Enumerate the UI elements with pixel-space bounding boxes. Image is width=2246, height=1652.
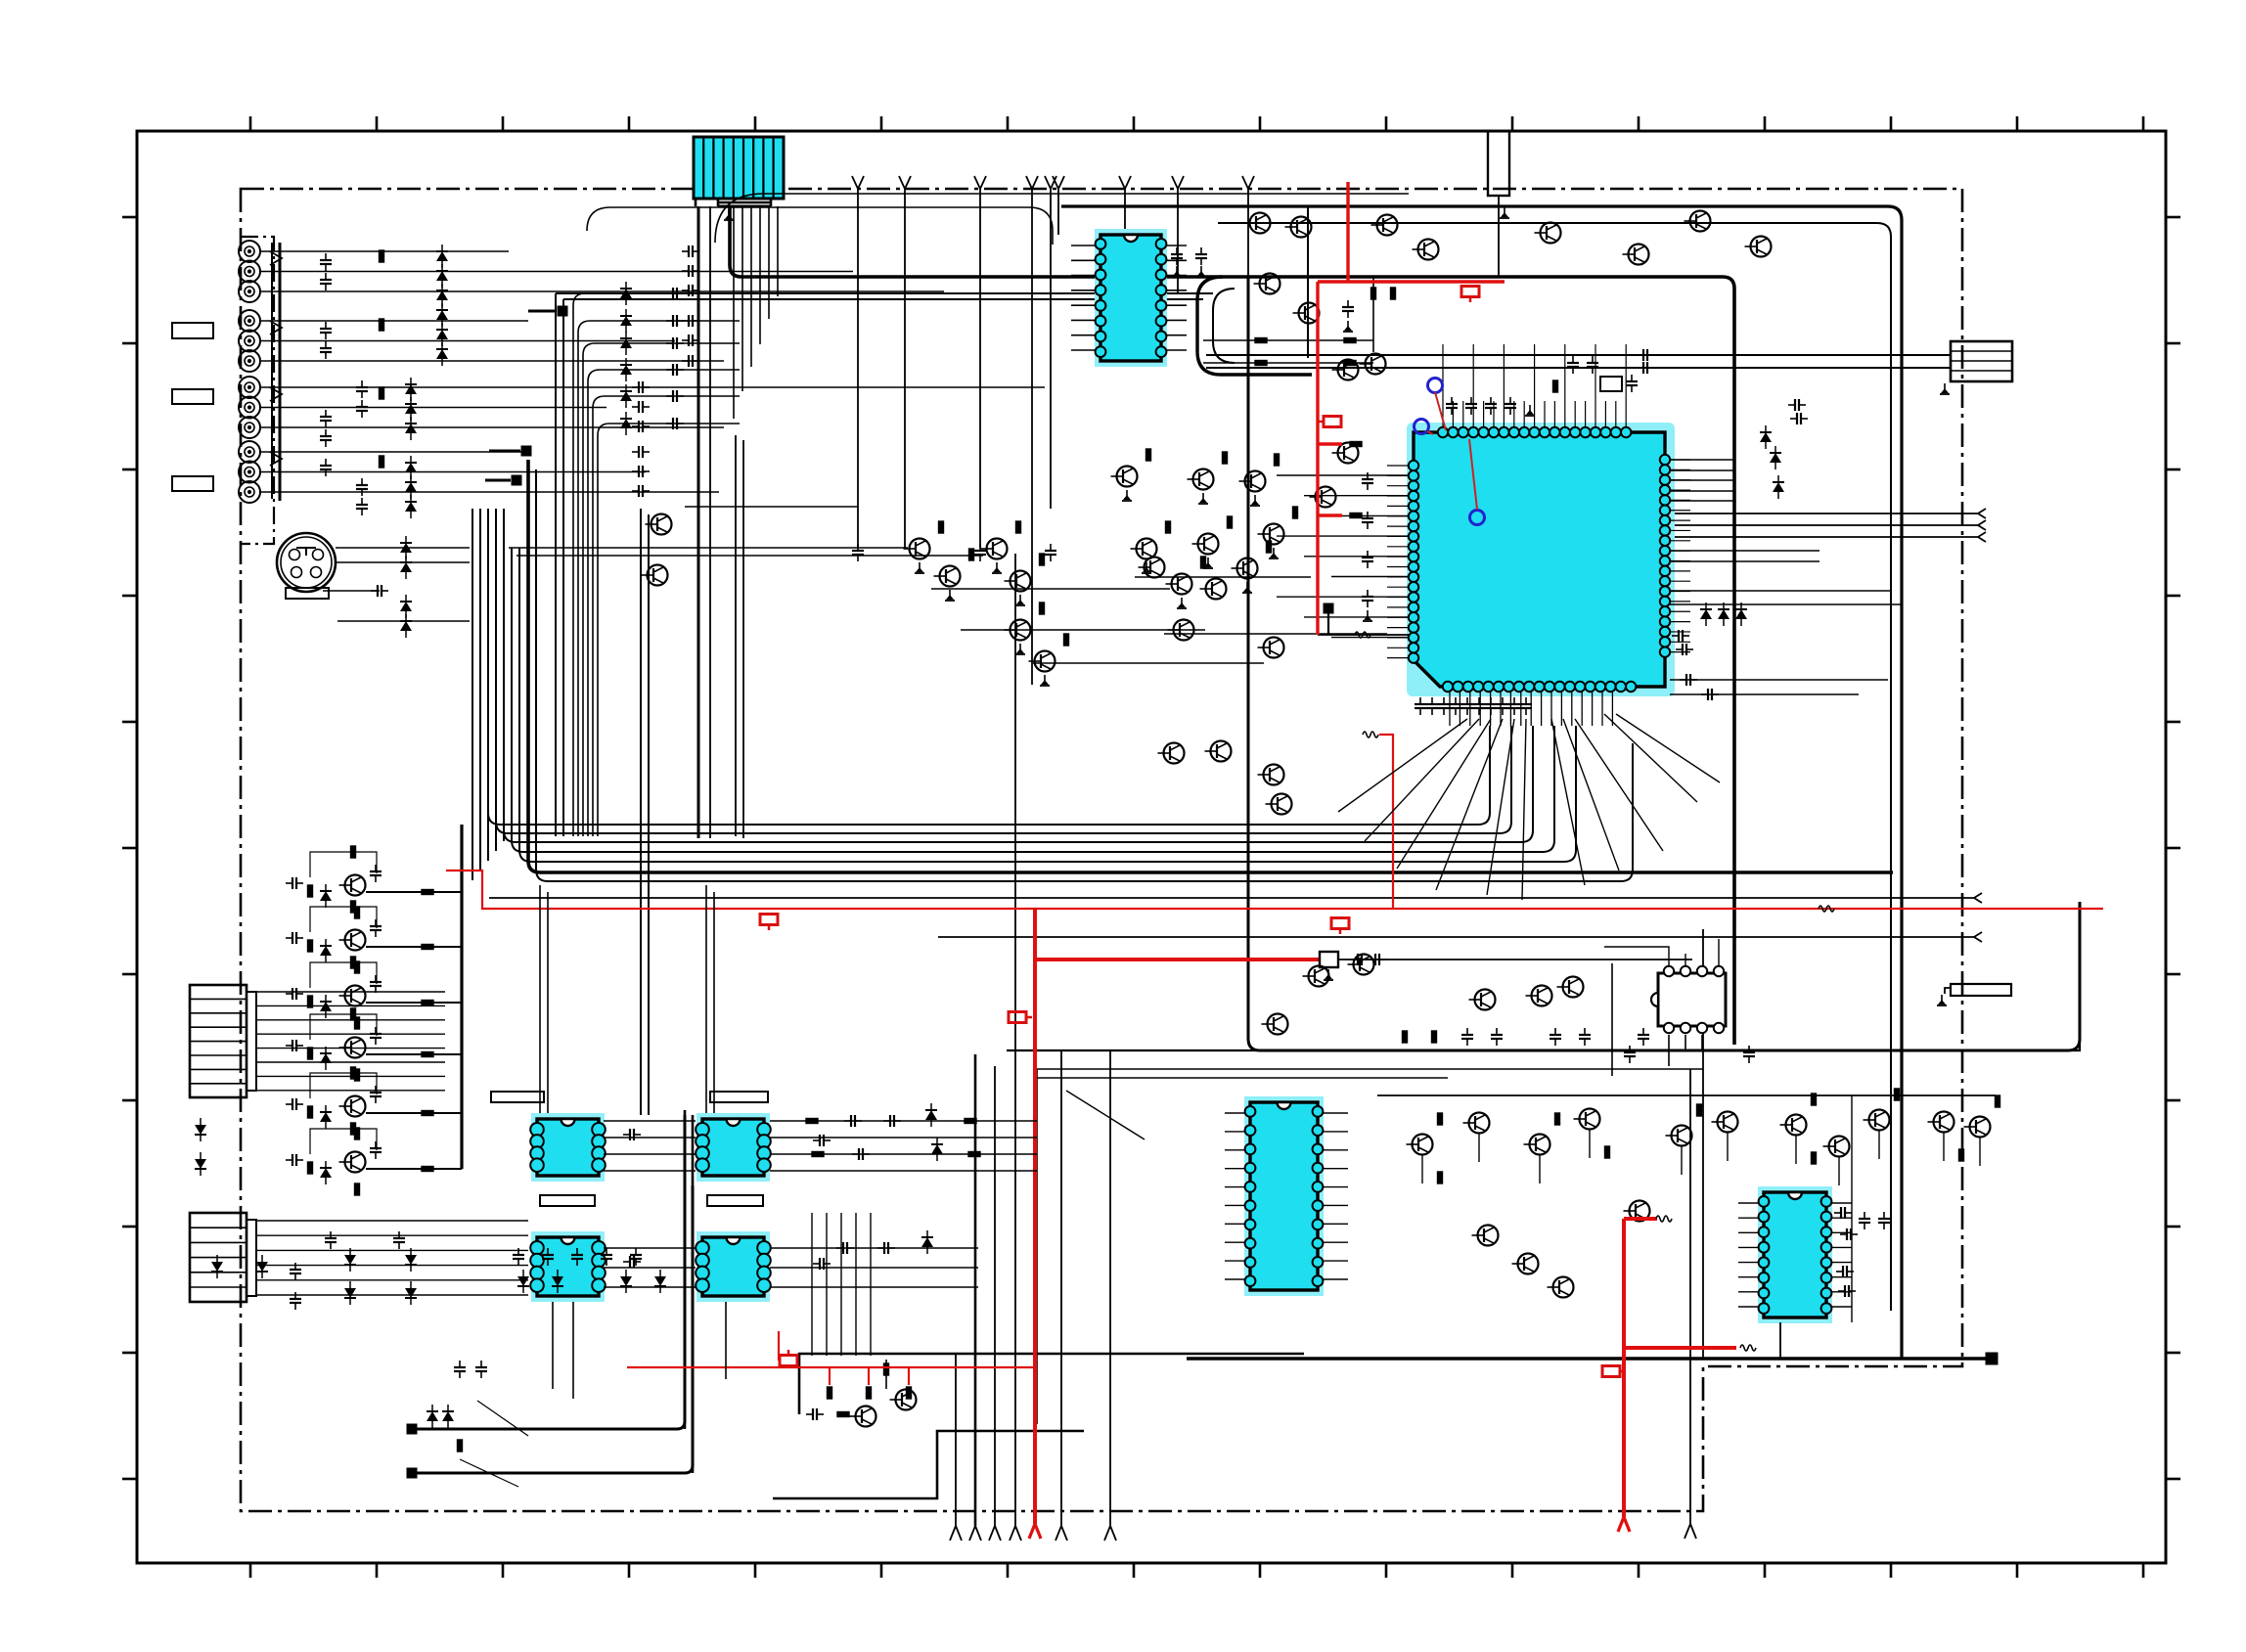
label above A	[491, 1092, 544, 1102]
component column x330	[320, 253, 332, 271]
wire: middle horizontal bundle	[488, 548, 1490, 825]
bottom-left diode/cap rows	[513, 1248, 524, 1266]
bottom-left cluster	[454, 1361, 466, 1378]
vertical pair below first rows	[735, 435, 737, 836]
red wire: horizontal y288	[1318, 280, 1505, 283]
component column x390	[380, 250, 384, 262]
terminal square	[1986, 1353, 1998, 1364]
transistors above QFP	[1285, 217, 1312, 238]
black line from red end to QFP	[1318, 634, 1409, 636]
single transistors left-mid	[646, 514, 672, 535]
label box 2	[172, 389, 213, 404]
mid horizontal link lines	[509, 547, 908, 549]
white DIP8 wiring	[1612, 963, 1702, 1076]
group arrows	[270, 251, 282, 265]
wire: vertical x1741	[1702, 929, 1704, 1359]
QFP pin stub wires	[1442, 344, 1444, 427]
diode column x420	[405, 378, 417, 401]
red wire: thick vertical x1058	[1033, 909, 1037, 1524]
FET pair below	[1158, 743, 1185, 764]
wire: verticals from top connector	[697, 206, 700, 838]
red stub resistors	[1350, 442, 1362, 447]
wire: left double vertical pair	[555, 293, 557, 836]
wire: top bus over IC area	[730, 206, 1734, 1045]
label box 1	[172, 323, 213, 338]
transistors top right of DIP16	[1244, 213, 1271, 234]
bottom mid transistor box	[799, 1354, 1304, 1414]
QFP right extra lines	[1670, 590, 1891, 592]
ECO marker circles (blue)	[1428, 379, 1443, 393]
red wire: thin horizontal y1398	[627, 1366, 1035, 1368]
verticals below DIP8 B to box	[811, 1213, 813, 1356]
component row right of DIP8 B	[806, 1119, 818, 1124]
vertical right of loop	[1307, 206, 1309, 358]
diode column right of QFP	[1760, 425, 1772, 449]
IC DIP8 B	[696, 1113, 771, 1182]
QFP left pin net	[1277, 474, 1409, 476]
wire: bottom thick bus to square terminal	[1187, 1357, 1986, 1361]
zener pair left-mid	[195, 1118, 206, 1141]
transistors left of QFP	[1310, 487, 1336, 508]
top link line above DIP16	[587, 207, 1053, 245]
more transistors left of QFP	[1139, 558, 1165, 578]
red wire: thin jog near QFP	[1379, 735, 1393, 908]
DIP16 caps right	[1171, 247, 1183, 265]
red flag D	[1331, 918, 1349, 935]
diodes triple below	[1700, 603, 1712, 626]
right-bottom component rows	[1461, 1028, 1473, 1046]
caps at bottoms of top verticals	[852, 544, 864, 561]
QFP right-side triple lines	[1670, 513, 1978, 514]
RCA jacks	[239, 241, 260, 262]
red flag B	[1318, 417, 1341, 427]
wire: bottom-right box top	[1007, 902, 2080, 1050]
transistors pair mid (1350,1005)	[1303, 966, 1329, 987]
label box 3	[172, 476, 213, 491]
red flag A	[1461, 287, 1479, 303]
series caps on jack rows	[682, 246, 699, 257]
mid cluster transistors	[904, 539, 930, 559]
gnd below connector	[724, 209, 734, 220]
DIP right pin stubs	[1738, 1202, 1758, 1204]
sheet border frame	[137, 131, 2166, 1563]
wire: top area verticals from dash-dot	[857, 189, 859, 548]
left column output bus	[460, 825, 463, 1169]
red flag G	[1602, 1366, 1626, 1377]
wire: verticals mid-left	[640, 509, 642, 1115]
QFP bottom pin verticals	[1449, 692, 1451, 726]
diodes near DIN	[400, 536, 412, 559]
long thin horizontals mid page	[489, 897, 1974, 899]
connector2 extra symbols	[344, 1248, 356, 1272]
red wire: top vertical	[1346, 182, 1349, 282]
thick L-wires bottom-left	[407, 1424, 417, 1434]
transistors right of QFP top	[1684, 211, 1711, 232]
cluster above QFP	[1446, 397, 1458, 415]
caps column left of QFP	[1362, 472, 1373, 490]
left connector block 1	[190, 985, 256, 1097]
caps below QFP	[1415, 697, 1426, 715]
red wire: bottom right network	[1624, 1217, 1657, 1221]
left connector block 2	[190, 1213, 256, 1302]
wire: right outer vertical bus thin	[1218, 223, 1891, 1311]
box edge verticals bottom mid	[1036, 1069, 1038, 1424]
red stubs at transistor box	[829, 1367, 831, 1385]
red wire: vertical x1347	[1316, 282, 1319, 635]
label under A	[540, 1195, 595, 1206]
wire: right outer vertical bus thick	[1061, 206, 1902, 1359]
red flag E	[1009, 1012, 1032, 1023]
IC DIP20 bottom mid-right	[1244, 1096, 1324, 1296]
connector CN top (cyan)	[694, 137, 784, 199]
connector verticals down to rows	[777, 206, 779, 296]
cluster right of red vertical	[1342, 300, 1354, 318]
DIP16 stubs	[1071, 245, 1095, 246]
red flag C	[760, 915, 778, 931]
diode column x452	[436, 245, 448, 268]
IC DIP8 C	[530, 1231, 606, 1302]
red stubs	[1318, 442, 1342, 445]
beads on red lines	[1363, 732, 1378, 737]
left column transistor cells	[339, 875, 366, 896]
IC DIP8 A	[530, 1113, 606, 1182]
DIP20 pin stubs	[1225, 1112, 1244, 1114]
DIP8 interconnect lines	[604, 1120, 696, 1122]
bottom right transistor cluster	[1407, 1135, 1433, 1155]
wire: jack bundle going down	[472, 509, 473, 880]
bottom-right section top horizontals	[1037, 1068, 1703, 1070]
top-right small box component	[1488, 131, 1509, 196]
IC DIP8 white (top of bottom-right)	[1651, 966, 1726, 1033]
red wire: long thin horizontal	[446, 871, 2103, 909]
QFP right bottom lines	[1670, 679, 1888, 681]
label above B	[710, 1092, 768, 1102]
lines to right connector	[1206, 354, 1951, 356]
black box at end of red	[1320, 952, 1338, 967]
jack bundle terminals	[528, 310, 557, 313]
IC QFP main (cyan)	[1407, 423, 1675, 696]
right connector box 1	[1951, 341, 2012, 381]
caps column x370	[356, 380, 368, 398]
DIP8 riser wires	[539, 885, 541, 1113]
wire: thick mid bus	[528, 460, 1893, 872]
board outline dash-dot boundary	[241, 189, 1962, 1511]
IC DIP bottom right	[1758, 1186, 1832, 1323]
QFP right pin lines	[1670, 459, 1734, 461]
bottom right cluster top rail	[1377, 1094, 1996, 1096]
bottom verticals with arrows	[955, 1354, 957, 1526]
loop rows right of DIP16	[1203, 339, 1373, 341]
IC DIP8 D	[696, 1231, 771, 1302]
input jacks dash-dot sub-boundary	[241, 237, 274, 544]
jack vertical bus	[271, 243, 273, 499]
red flag F	[780, 1350, 797, 1366]
caps right of bottom DIP	[1834, 1207, 1852, 1219]
red wire: thick horizontal y981	[1035, 958, 1320, 961]
caps cluster near DIP8s	[623, 1129, 641, 1140]
label under B	[707, 1195, 763, 1206]
fan annotation lines below QFP	[1338, 719, 1467, 812]
thick loop left of cluster	[1197, 277, 1312, 375]
IC DIP16	[1095, 229, 1167, 367]
DIN connector circle	[277, 533, 336, 599]
left lower connector wires	[256, 991, 445, 993]
diode/cap rows mid top	[573, 293, 740, 836]
right connector small box 2	[1951, 984, 2011, 996]
connector bracket	[696, 199, 771, 206]
jack wires right	[260, 250, 509, 252]
wire: vertical x1276	[1248, 275, 2080, 1050]
